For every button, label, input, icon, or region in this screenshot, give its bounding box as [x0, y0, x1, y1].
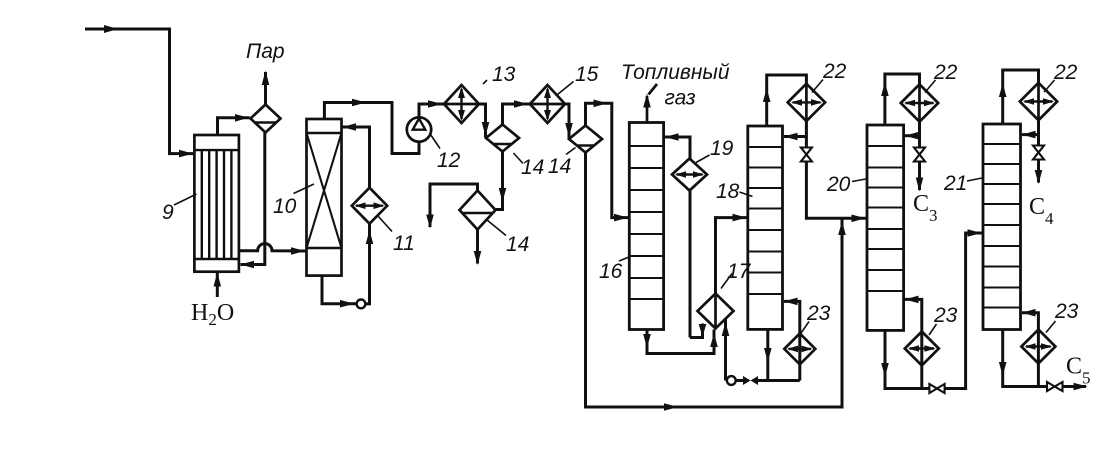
condenser 22c through line [1037, 83, 1040, 120]
arrow: feed flow right [104, 25, 118, 33]
wire: cooler 13 to separator 14a [479, 104, 486, 137]
svg-text:23: 23 [806, 302, 831, 325]
svg-text:21: 21 [943, 172, 967, 195]
condenser 22a diamond [788, 84, 825, 121]
arrow: reflux into column 20 [905, 132, 919, 140]
column 18 trays [748, 147, 783, 294]
wire: pump riser into exchanger 17 hot side [724, 319, 727, 381]
cooler 11 internal double arrow [356, 204, 383, 206]
wire: pump 12 discharge to cooler 13 [419, 104, 444, 117]
condenser 22c diamond [1020, 83, 1057, 120]
column 20 outline [867, 125, 904, 330]
label 20 leader dash [852, 179, 866, 182]
valve (bowtie) on product C5 line [1047, 382, 1055, 391]
wire: separator 14c bottom drain [476, 230, 479, 264]
label 11 leader [379, 217, 393, 232]
arrow: bottoms flow right [340, 300, 354, 308]
condenser 22c internal double arrow [1025, 100, 1053, 102]
label 14a leader [514, 153, 524, 164]
arrow: product C4 down (open end) [1035, 170, 1043, 184]
svg-text:13: 13 [492, 63, 516, 86]
cooler 15 through line [530, 103, 565, 106]
reactor 10 cap line [307, 132, 342, 134]
wire: condenser 22c to valve and product C4 [1037, 120, 1040, 182]
reactor 10 bed bottom line [307, 247, 342, 249]
wire: cooler 15 to separator 14b [565, 104, 569, 138]
arrow: bottom drain down (open end) [474, 251, 482, 265]
reboiler 23c riser [1022, 313, 1038, 387]
label 12 leader [431, 135, 441, 149]
wire: lean absorbent return into column 16 top [665, 137, 690, 159]
svg-text:Топливный: Топливный [621, 61, 730, 84]
svg-text:22: 22 [933, 61, 958, 84]
svg-text:14: 14 [521, 156, 544, 179]
wire: column 20 bottoms to valve and column 21 feed [885, 233, 982, 389]
wire: pump to cooler 11 riser [365, 224, 369, 304]
arrow: overhead up [763, 88, 771, 102]
vessel 9 bottom cap line [194, 258, 239, 260]
column 16 trays [629, 146, 663, 299]
cooler 11 diamond [352, 188, 387, 224]
arrow: drain down (open end) [426, 215, 434, 229]
label 23b leader [929, 324, 937, 335]
svg-text:20: 20 [826, 173, 851, 196]
H2O inlet wire [216, 273, 219, 298]
arrow: overhead up [881, 82, 889, 96]
wire: condenser 22b to valve and product C3 [918, 122, 921, 190]
arrow: reflux into column 18 [784, 133, 798, 141]
svg-text:22: 22 [822, 60, 847, 83]
steam drum diamond (unlabeled) [251, 105, 281, 133]
reflux branch into column 21 [1022, 133, 1039, 136]
small recycle pump (circle) [357, 300, 366, 309]
svg-text:19: 19 [710, 137, 734, 160]
svg-text:14: 14 [548, 155, 571, 178]
arrow: drain into vessel 9 (left) [240, 261, 254, 269]
valve (hourglass) below condenser 22b [914, 148, 925, 155]
arrow: bottoms down [764, 348, 772, 362]
arrow: reflux into column 21 [1022, 131, 1036, 139]
label 22b leader [925, 80, 936, 93]
arrow: feed into column 21 [968, 229, 982, 237]
svg-text:Пар: Пар [246, 40, 285, 63]
condenser 22a through line [805, 84, 808, 121]
wire: main feed line top-left [85, 29, 193, 154]
label 23c leader [1046, 321, 1056, 333]
arrow: reboiler return into column 20 [905, 296, 919, 304]
arrow: into column 16 (left) [665, 133, 679, 141]
separator 14a diamond [486, 125, 519, 152]
wire: steam drum drain down to vessel 9 [241, 133, 265, 265]
wire: reactor 10 overhead to pump 12 [324, 103, 419, 154]
arrow: down into separator 14b [565, 123, 573, 137]
wire: vessel 9 to reactor 10 with hop over drain [239, 244, 306, 251]
arrow: hot side drain down [699, 324, 707, 337]
valve (bowtie) at pump discharge [743, 376, 751, 385]
arrow: overhead flow right [352, 99, 366, 107]
condenser 22b internal double arrow [906, 102, 934, 104]
svg-text:16: 16 [599, 260, 623, 283]
svg-text:C3: C3 [913, 191, 938, 225]
arrow: bottoms down [643, 334, 651, 348]
cooler 13 internal vertical double arrow [460, 89, 462, 119]
label 23a leader [800, 322, 809, 335]
separator 14c diamond [460, 191, 496, 230]
cooler 15 diamond [530, 85, 565, 123]
svg-text:14: 14 [506, 233, 529, 256]
wire: separator 14a liquid down to separator 14c [496, 152, 503, 210]
arrow: bottoms down [881, 363, 889, 377]
wire: vessel 9 top to steam drum [218, 118, 250, 135]
arrow: steam up (Par) [262, 71, 270, 86]
separator 14b diamond [569, 126, 602, 153]
svg-text:22: 22 [1053, 61, 1078, 84]
svg-text:15: 15 [575, 63, 599, 86]
arrow: up into cooler 11 [366, 230, 374, 244]
label 18 leader [740, 192, 753, 197]
svg-text:C5: C5 [1066, 354, 1091, 388]
svg-text:12: 12 [437, 149, 461, 172]
arrow: into reactor 10 [291, 247, 305, 255]
arrow: into reactor 10 right side [342, 123, 356, 131]
exchanger 17 through line [714, 294, 717, 329]
separator 14c level line [463, 212, 493, 214]
vessel 9 top cap line [194, 149, 239, 151]
arrow: into cooler 13 [428, 100, 442, 108]
svg-text:газ: газ [665, 87, 696, 110]
reboiler 23b diamond [905, 332, 939, 366]
pump 12 (circle with triangle) [407, 117, 431, 141]
reflux branch into column 18 [784, 135, 806, 138]
wire: cooler 19 riser (from exchanger 17 hot side) [690, 191, 703, 338]
wire: separator 14b liquid long recycle to column 20 [586, 153, 843, 408]
cooler 19 internal double arrow [677, 173, 703, 175]
reactor 10 outline [307, 119, 342, 276]
reboiler 23b internal double arrow [910, 347, 935, 349]
condenser 22b diamond [901, 84, 938, 121]
valve (hourglass) below condenser 22a [801, 148, 812, 155]
exchanger 17 diamond [698, 294, 734, 329]
wire: cooler 11 to reactor 10 top return [343, 127, 370, 188]
label 22a leader [812, 80, 823, 93]
bottoms pump (circle) of column 18 [727, 376, 736, 385]
wire: reactor 10 bottoms to small pump [322, 276, 357, 304]
wire: column 18 overhead to condenser 22a [767, 75, 807, 126]
wire: column 16 bottoms to exchanger 17 [647, 330, 714, 354]
arrow: feed into column 16 [614, 214, 628, 222]
vessel 9 (tubular furnace/heater) outline [194, 135, 239, 272]
arrow: recycle up riser [838, 221, 846, 235]
cooler 19 diamond [672, 159, 707, 191]
wire: separator 14b vapor to column 16 feed [586, 103, 629, 217]
svg-text:17: 17 [727, 260, 752, 283]
wire: separator 14a vapor to cooler 15 [503, 104, 530, 125]
arrow: feed into vessel 9 [179, 150, 193, 158]
reboiler 23c internal double arrow [1026, 345, 1051, 347]
condenser 22a internal double arrow [793, 101, 821, 103]
condenser 22b through line [918, 84, 921, 121]
wire: separator 14c top drain left [430, 184, 478, 227]
steam drum level line [255, 121, 277, 123]
wire: steam outlet up [264, 72, 267, 105]
arrow: overhead up [999, 83, 1007, 97]
separator 14a level line [494, 143, 512, 145]
arrow: feed into column 20 [852, 215, 866, 223]
reactor 10 X packing [307, 133, 342, 248]
arrow: bottoms down [999, 362, 1007, 376]
separator 14b level line [577, 144, 594, 146]
svg-text:18: 18 [716, 180, 740, 203]
svg-text:9: 9 [162, 201, 174, 224]
cooler 13 diamond [444, 85, 479, 123]
valve (bowtie) on column 20 bottoms [929, 384, 937, 393]
label 19 leader [696, 155, 710, 163]
label 13 leader tick [483, 80, 487, 84]
cooler 15 internal vertical double arrow [546, 89, 548, 119]
wire: exchanger 17 to column 18 feed [716, 218, 748, 294]
arrow: product C3 down (open end) [916, 178, 924, 192]
arrow: H2O up into vessel 9 [214, 273, 222, 287]
wire: column 18 bottom outlet [766, 329, 769, 380]
arrow: into cooler 15 [514, 100, 528, 108]
arrow: product C5 right (open end) [1074, 383, 1088, 391]
arrow: up into exchanger 17 [722, 322, 730, 336]
arrow: down into separator 14c [499, 188, 507, 202]
label 14b leader [566, 148, 576, 155]
arrow into steam drum [235, 114, 249, 122]
wire: column 21 overhead to condenser 22c [1003, 70, 1039, 124]
valve (hourglass) below condenser 22c [1033, 146, 1044, 153]
vessel 9 internal tubes [202, 150, 232, 259]
arrow: up into exchanger 17 [710, 333, 718, 347]
column 20 trays [867, 146, 904, 291]
column 21 outline [983, 124, 1021, 330]
arrow: vapor right [594, 100, 608, 108]
arrow: fuel gas up [643, 94, 651, 108]
reboiler 23c diamond [1021, 330, 1055, 364]
wire: column 21 bottoms to valve and product C5 [1003, 330, 1086, 387]
label 21 leader dash [967, 178, 982, 181]
arrow: down into separator 14a [482, 122, 490, 136]
column 16 (absorber) outline [629, 123, 663, 330]
label 10 leader [294, 184, 315, 194]
wire: fuel gas off column 16 top [647, 84, 657, 123]
wire: column 18 bottoms header [736, 379, 800, 382]
svg-text:10: 10 [273, 195, 297, 218]
svg-text:H2O: H2O [191, 300, 234, 329]
cooler 13 through line [444, 103, 479, 106]
wire: column 20 overhead to condenser 22b [885, 74, 920, 125]
arrow: feed into column 18 [733, 214, 747, 222]
label 9 leader [174, 194, 197, 205]
arrow: reboiler return into column 18 [784, 298, 798, 306]
arrow: reboiler return into column 21 [1022, 309, 1036, 317]
column 21 trays [983, 144, 1021, 308]
wire: condenser 22a down to valve and feed line [806, 121, 866, 218]
reboiler 23a internal double arrow [789, 348, 812, 350]
svg-text:23: 23 [933, 304, 958, 327]
label 22c leader [1044, 80, 1055, 92]
svg-text:11: 11 [393, 232, 415, 255]
column 18 outline [748, 126, 783, 329]
svg-text:23: 23 [1054, 300, 1079, 323]
arrow: recycle right along bottom [664, 403, 678, 411]
label 17 leader [721, 274, 732, 289]
svg-text:C4: C4 [1029, 194, 1054, 228]
label 15 leader [558, 82, 574, 95]
reboiler 23b riser [905, 299, 922, 388]
reboiler 23a diamond [784, 333, 815, 364]
label 14c leader [487, 220, 506, 236]
label 16 leader [619, 257, 631, 262]
reboiler 23a riser [784, 301, 800, 380]
reflux branch into column 20 [905, 134, 920, 137]
